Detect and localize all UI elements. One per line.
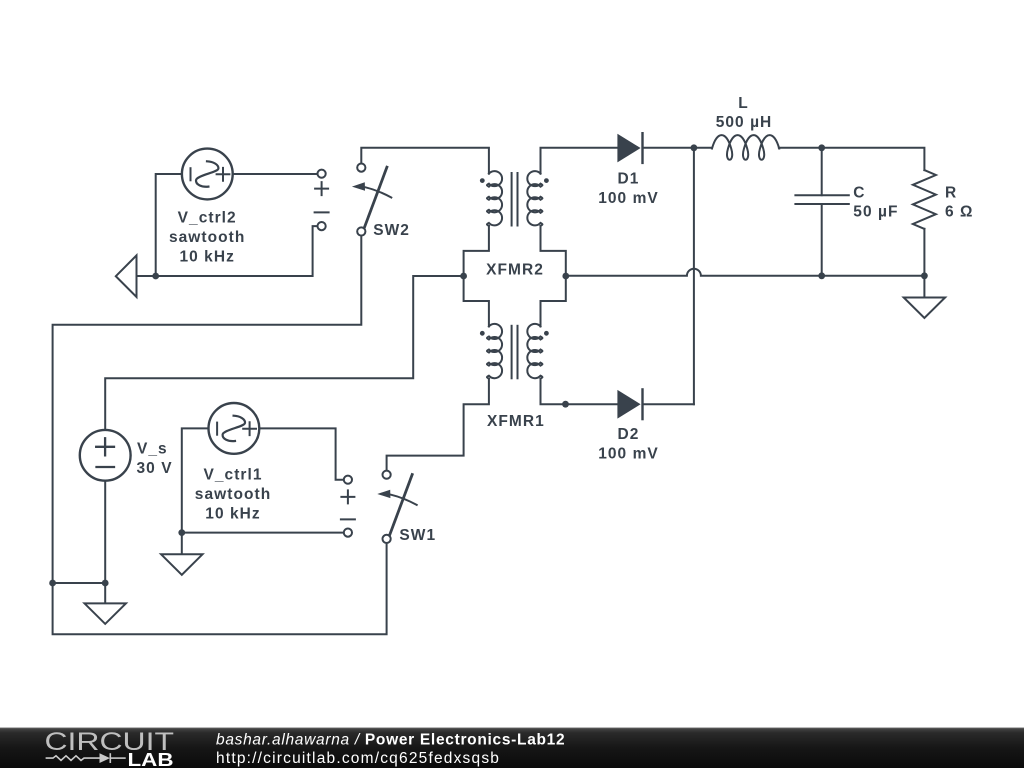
svg-text:R: R [945,185,957,202]
terminal V_ctrl2 minus [318,222,326,230]
transformer XFMR1 [480,324,549,379]
svg-text:V_ctrl1: V_ctrl1 [203,467,262,484]
label C value [853,185,898,221]
wire L to C node [779,147,822,149]
ground flag left [116,255,137,297]
wire V_ctrl1 left lead to ground [182,428,208,532]
label V_ctrl1 [195,467,271,523]
ground output [904,298,945,319]
wire SW2 top to XFMR2 primary top [361,148,489,174]
label V_s [137,441,173,478]
switch SW1 [377,471,416,543]
voltage source V_ctrl2 [182,149,233,200]
wire ground link [53,583,106,602]
wire XFMR1 secondary bottom to D2 anode [541,379,618,404]
svg-text:6 Ω: 6 Ω [945,203,974,220]
node V_ctrl2 ground junction [152,273,159,280]
svg-text:L: L [738,95,749,112]
label XFMR1 [487,413,545,430]
terminal V_ctrl1 minus [344,529,352,537]
wire V_ctrl1 minus return [182,532,343,534]
label V_ctrl1 minus sign [341,518,355,520]
node XFMR1 secondary pin [562,401,569,408]
svg-text:V_ctrl2: V_ctrl2 [178,210,237,227]
svg-text:10 kHz: 10 kHz [205,506,260,523]
label XFMR2 [486,261,544,278]
svg-text:XFMR2: XFMR2 [486,261,544,278]
node V_s ground left [49,580,56,587]
diode D2 [617,389,642,419]
node XFMR2 left tap [460,273,467,280]
voltage source V_s [80,430,131,481]
wire V_ctrl1 plus lead [260,428,343,479]
node diodes junction [691,144,698,151]
node L-C [818,144,825,151]
wire V_ctrl2 plus lead [234,173,317,175]
svg-text:50 µF: 50 µF [853,203,898,220]
diode D1 [617,133,642,163]
node XFMR2 right tap [562,273,569,280]
svg-text:LAB: LAB [128,749,174,768]
wire R bottom [923,229,925,276]
svg-text:D2: D2 [618,426,640,443]
label V_ctrl2 minus sign [315,211,329,213]
node V_ctrl1 ground junction [178,529,185,536]
capacitor C [795,148,848,276]
ground V_s [85,603,126,624]
voltage source V_ctrl1 [209,403,260,454]
svg-text:sawtooth: sawtooth [169,229,245,246]
svg-text:XFMR1: XFMR1 [487,413,545,430]
svg-text:D1: D1 [618,171,640,188]
svg-text:100 mV: 100 mV [598,190,659,207]
footer bar [0,728,1024,768]
wire D1 cathode to node [644,147,694,149]
wire SW2 bottom to left rail down to bottom rail to SW1 bottom [53,236,387,635]
svg-text:500 µH: 500 µH [716,114,773,131]
logo squiggle resistor diode [46,753,126,763]
label V_ctrl2 [169,210,245,266]
svg-text:SW1: SW1 [399,527,436,544]
svg-text:V_s: V_s [137,441,168,458]
terminal V_ctrl2 plus [318,170,326,178]
wire V_ctrl2 minus return [137,226,317,276]
node C bottom [818,272,825,279]
label SW1 [399,527,436,544]
svg-text:100 mV: 100 mV [598,446,659,463]
wire D2 cathode to center vertical [644,403,694,405]
terminal V_ctrl1 plus [344,476,352,484]
label L value [716,95,773,131]
label V_ctrl1 plus sign [341,490,354,503]
wire V_s bottom [104,482,106,584]
svg-text:bashar.alhawarna / Power Elect: bashar.alhawarna / Power Electronics-Lab… [216,732,565,749]
wire left tap to V_s plus [105,276,463,429]
node R bottom [921,272,928,279]
wire XFMR2 secondary top to D1 anode [541,148,618,174]
transformer XFMR2 [464,171,566,326]
node V_s ground [102,580,109,587]
label V_ctrl2 plus sign [315,182,328,195]
svg-text:SW2: SW2 [373,222,410,239]
svg-text:http://circuitlab.com/cq625fed: http://circuitlab.com/cq625fedxsqsb [216,750,500,767]
label D2 value [598,426,659,463]
wire C node to R [822,148,925,170]
label SW2 [373,222,410,239]
svg-text:30 V: 30 V [137,460,173,477]
wire R node to ground [923,276,925,297]
svg-text:10 kHz: 10 kHz [179,249,234,266]
resistor R [913,170,936,229]
wire V_ctrl2 left lead [156,174,181,276]
wire node to L [694,147,712,149]
wire XFMR1 primary bottom to SW1 top [387,379,489,470]
svg-text:C: C [853,185,865,202]
switch SW2 [352,164,391,236]
wire center vertical D1 node to D2 cathode [693,148,695,404]
wire to ground V_ctrl1 [181,533,183,554]
label R value [945,185,974,221]
ground V_ctrl1 [161,554,202,575]
svg-text:sawtooth: sawtooth [195,486,271,503]
inductor L [712,135,779,160]
wire mid rail with hop over vertical [566,269,925,276]
label D1 value [598,171,659,208]
